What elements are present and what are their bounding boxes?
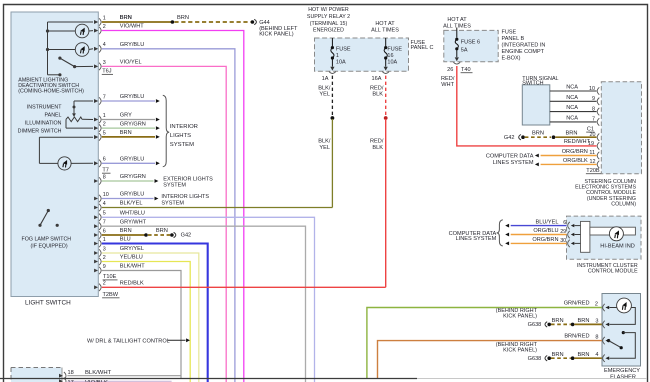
hi-beam indicator lamp (609, 227, 623, 241)
pin 18 terminal (59, 374, 63, 378)
svg-text:BRN: BRN (120, 15, 132, 21)
fog lamp switch contact left (38, 224, 41, 227)
svg-text:DIMMER SWITCH: DIMMER SWITCH (18, 128, 62, 134)
wire GRY/GRN pin2 to interior lights (102, 127, 155, 129)
svg-text:16A: 16A (372, 76, 382, 82)
svg-text:FOG LAMP SWITCH: FOG LAMP SWITCH (22, 236, 72, 242)
svg-text:COMPUTER DATA: COMPUTER DATA (486, 154, 534, 160)
brace computer data lines (cluster) (497, 220, 503, 246)
svg-text:HI-BEAM IND: HI-BEAM IND (600, 244, 635, 250)
ground node dot (521, 135, 525, 139)
wire NCA to steering module pin 10 (550, 90, 597, 92)
svg-text:7: 7 (103, 94, 106, 100)
svg-text:PANEL B: PANEL B (502, 36, 525, 42)
wire lamp to pin 6 (71, 162, 93, 164)
pin 4 GRY/BLU terminal (94, 47, 98, 51)
svg-text:BRN: BRN (577, 352, 589, 358)
svg-text:10A: 10A (336, 60, 346, 66)
wire RED/BLK pin2 to fuse 16 (102, 286, 386, 288)
wire ORG/BLU to cluster pin 29 (511, 234, 567, 236)
dashed BRN from G638 (pin 3) (551, 323, 571, 325)
arrow w/ drl callout (168, 339, 186, 341)
svg-text:SYSTEM: SYSTEM (163, 182, 186, 188)
flasher internal: lamp loop to pin3 (609, 308, 635, 325)
svg-text:FLASHER: FLASHER (610, 374, 636, 380)
svg-text:26: 26 (447, 67, 453, 73)
svg-text:LINES SYSTEM: LINES SYSTEM (493, 160, 534, 166)
pin 2 RED/BLK terminal (94, 285, 98, 289)
svg-text:INTERIOR: INTERIOR (170, 124, 198, 130)
svg-text:5A: 5A (461, 47, 468, 53)
svg-text:EMERGENCY: EMERGENCY (604, 368, 640, 374)
svg-text:NCA: NCA (566, 85, 578, 91)
svg-text:T10E: T10E (103, 274, 117, 280)
svg-text:SWITCH: SWITCH (522, 80, 543, 86)
fog lamp switch blade (40, 211, 48, 226)
svg-text:FUSE: FUSE (336, 47, 351, 53)
wire BLU pin1 (102, 244, 208, 382)
svg-text:ILLUMINATION: ILLUMINATION (25, 120, 62, 126)
svg-text:2: 2 (103, 255, 106, 261)
svg-text:5: 5 (103, 211, 106, 217)
svg-text:KICK PANEL): KICK PANEL) (503, 314, 537, 320)
svg-text:9: 9 (103, 264, 106, 270)
svg-text:GRY/BLU: GRY/BLU (120, 94, 144, 100)
flasher switch blade (609, 341, 622, 348)
svg-text:KICK PANEL): KICK PANEL) (503, 347, 537, 353)
pin 3 GRY/YEL terminal (94, 251, 98, 255)
wire switch to pin 3 (75, 65, 93, 67)
dimmer wiper riser (73, 101, 75, 107)
svg-text:G638: G638 (528, 322, 542, 328)
svg-text:GRY/GRN: GRY/GRN (120, 174, 146, 180)
dimmer wiper arrow (73, 107, 75, 114)
ground point G44 node (251, 20, 255, 24)
svg-text:SYSTEM: SYSTEM (170, 142, 194, 148)
svg-text:RED/: RED/ (370, 139, 384, 145)
wire GRY pin1 to interior lights (102, 119, 155, 121)
svg-text:G42: G42 (504, 135, 515, 141)
svg-text:BRN/RED: BRN/RED (564, 334, 589, 340)
svg-text:FUSE: FUSE (387, 47, 402, 53)
svg-text:10: 10 (103, 192, 109, 198)
svg-text:HOT W/ POWER: HOT W/ POWER (308, 7, 349, 13)
svg-text:12: 12 (590, 159, 596, 165)
splice node BRN (pin 3) (571, 323, 575, 327)
svg-text:11: 11 (589, 150, 595, 156)
cluster pin 30 bracket (568, 240, 570, 247)
cluster internal bus bar (590, 227, 636, 235)
svg-text:BRN: BRN (156, 228, 168, 234)
cluster pin 6 bracket (568, 222, 570, 229)
ground G44 chevron (254, 19, 256, 24)
pin 2 YEL/BLU terminal (94, 260, 98, 264)
pin 10 GRY/BLU terminal (94, 197, 98, 201)
wire BLK/WHT pin18 (67, 375, 181, 377)
dimmer: wire pin 7 (74, 100, 93, 102)
svg-text:10A: 10A (387, 60, 397, 66)
fog lamp switch contact upper (47, 209, 50, 212)
pin 8 GRY/GRN terminal (94, 179, 98, 183)
svg-text:HOT AT: HOT AT (375, 21, 395, 27)
pin 6 BRN terminal (94, 233, 98, 237)
wire VIO/WHT pin2 (102, 31, 244, 382)
svg-text:8: 8 (103, 174, 106, 180)
ground point G42 node (170, 233, 174, 237)
switch contact upper (58, 57, 61, 60)
svg-text:1: 1 (103, 113, 106, 119)
ground G42 chevron (174, 232, 176, 237)
svg-text:BRN: BRN (532, 131, 544, 137)
svg-text:FUSE 6: FUSE 6 (461, 40, 480, 46)
lamp (coming-home lamp 2) (75, 43, 89, 57)
svg-text:E-BOX): E-BOX) (502, 56, 521, 62)
svg-text:5: 5 (103, 130, 106, 136)
dimmer lamp loop left side (38, 137, 40, 163)
pin 1 BRN terminal (94, 20, 98, 24)
wire lamp2 to pin 4 (89, 48, 93, 51)
fuse 1 (331, 38, 333, 46)
svg-text:6: 6 (563, 220, 566, 226)
svg-text:GRY: GRY (120, 113, 132, 119)
svg-text:16: 16 (387, 53, 393, 59)
svg-text:10: 10 (589, 86, 595, 92)
svg-text:(IF EQUIPPED): (IF EQUIPPED) (31, 243, 68, 249)
svg-text:(INTEGRATED IN: (INTEGRATED IN (502, 43, 546, 49)
svg-text:WHT: WHT (441, 82, 454, 88)
svg-text:BLU/YEL: BLU/YEL (535, 219, 558, 225)
flasher internal: wire pin2 to lamp (609, 307, 617, 309)
pin 4 BLK/YEL terminal (94, 206, 98, 210)
svg-text:1: 1 (103, 15, 106, 21)
dashed BRN to ground G44 (174, 21, 250, 23)
pin 1 BLU terminal (94, 242, 98, 246)
wire GRY/BLU pin7 to interior lights (102, 100, 155, 102)
svg-text:BRN: BRN (566, 131, 578, 137)
cluster pin 30 internal stub (575, 242, 581, 244)
wire BLK/YEL pin4 to fuse 1 (102, 207, 333, 209)
dimmer lamp loop: wire pin 5 (39, 136, 93, 138)
svg-text:GRY/BLU: GRY/BLU (120, 157, 144, 163)
wire BLU/YEL to cluster pin 6 (511, 225, 567, 227)
svg-text:GRY/YEL: GRY/YEL (120, 246, 144, 252)
svg-text:2: 2 (103, 122, 106, 128)
instrument cluster control module body (567, 216, 642, 259)
svg-text:FUSE: FUSE (502, 30, 517, 36)
svg-text:(COMING-HOME-SWITCH): (COMING-HOME-SWITCH) (18, 89, 84, 95)
wire RED/BLK fuse16 to light switch (385, 119, 387, 287)
switch common stub (48, 74, 59, 76)
flasher indicator lamp (617, 298, 632, 313)
svg-text:3: 3 (103, 60, 106, 66)
svg-text:ORG/BRN: ORG/BRN (562, 149, 588, 155)
svg-text:ORG/BRN: ORG/BRN (532, 237, 558, 243)
flasher internal: contact loop to pin4 (609, 333, 635, 359)
svg-text:RED/: RED/ (441, 76, 455, 82)
wire NCA to steering module pin 9 (550, 100, 597, 102)
svg-text:BLU: BLU (120, 237, 131, 243)
svg-text:T2BW: T2BW (103, 292, 119, 298)
cluster pin 6 internal stub (575, 225, 581, 227)
svg-text:LIGHTS: LIGHTS (170, 133, 191, 139)
svg-text:BLK: BLK (372, 92, 383, 98)
svg-text:(TERMINAL 15): (TERMINAL 15) (310, 21, 348, 27)
svg-text:YEL/BLU: YEL/BLU (120, 255, 143, 261)
svg-text:29: 29 (560, 229, 566, 235)
svg-text:1: 1 (336, 53, 339, 59)
svg-text:YEL: YEL (319, 145, 330, 151)
svg-text:BLK/: BLK/ (318, 139, 331, 145)
splice node BRN (pin 4) (571, 356, 575, 360)
svg-text:GRY/BLU: GRY/BLU (120, 42, 144, 48)
svg-text:4: 4 (595, 352, 598, 358)
wire YEL/BLU pin2 (102, 262, 190, 382)
svg-text:T7: T7 (102, 168, 109, 174)
splice node fuse1 drop (331, 116, 335, 120)
svg-text:VIO/WHT: VIO/WHT (120, 24, 145, 30)
svg-text:KICK PANEL): KICK PANEL) (259, 32, 294, 38)
svg-text:ENERGIZED: ENERGIZED (313, 28, 344, 34)
wire BRN/RED to flasher pin 8 (378, 341, 602, 379)
section divider line (0, 378, 417, 380)
wire NCA to steering module pin 8 (550, 111, 597, 113)
steering module pin brackets (597, 87, 599, 94)
svg-text:GRY/BLU: GRY/BLU (120, 192, 144, 198)
cluster pin 29 internal stub (575, 234, 581, 236)
svg-text:6: 6 (103, 157, 106, 163)
svg-text:8: 8 (595, 334, 598, 340)
svg-text:HOT AT: HOT AT (447, 17, 467, 23)
svg-text:NCA: NCA (566, 116, 578, 122)
svg-text:W/ DRL & TAILLIGHT CONTROL: W/ DRL & TAILLIGHT CONTROL (87, 338, 170, 344)
dimmer illumination lamp (58, 157, 71, 170)
svg-text:BRN: BRN (552, 352, 564, 358)
svg-text:NCA: NCA (566, 95, 578, 101)
wire GRN/RED to flasher pin 2 (367, 308, 602, 379)
wire BRN pin1 to splice (102, 21, 173, 23)
next-section connector body (cut off) (11, 368, 62, 382)
svg-text:INSTRUMENT: INSTRUMENT (27, 104, 62, 110)
dashed BRN to ground G42 (148, 234, 170, 236)
svg-text:GRN/RED: GRN/RED (564, 301, 590, 307)
wire RED/WHT fuse6 to steering module pin19 (457, 66, 597, 146)
wire GRY/YEL pin3 (102, 253, 199, 382)
steering column electronic systems control module body (601, 82, 641, 174)
emergency flasher body (602, 294, 641, 367)
svg-text:SUPPLY RELAY 2: SUPPLY RELAY 2 (307, 14, 350, 20)
pin 7 GRY/WHT terminal (94, 224, 98, 228)
wire to lamp 1 (48, 30, 76, 32)
svg-text:8: 8 (592, 106, 595, 112)
wire BRN pin6 to splice (102, 234, 146, 236)
svg-text:3: 3 (595, 318, 598, 324)
svg-text:GRY/WHT: GRY/WHT (120, 219, 147, 225)
svg-text:CONTROL MODULE: CONTROL MODULE (588, 269, 638, 275)
wire to lamp 2 (48, 49, 76, 51)
turn signal switch body (522, 85, 550, 125)
light switch connector body (11, 12, 98, 297)
svg-text:RED/BLK: RED/BLK (120, 281, 144, 287)
wire to dimmer lamp (39, 162, 57, 164)
ground G42 chevron (right) (519, 135, 521, 140)
fog lamp switch contact right (56, 224, 59, 227)
svg-text:G638: G638 (528, 356, 542, 362)
svg-text:BLK: BLK (372, 145, 383, 151)
pin 17 terminal (cut) (59, 379, 63, 382)
svg-text:20: 20 (590, 132, 596, 138)
wire WHT/BLU pin5 (102, 217, 315, 382)
wire GRY/BLU pin10 to interior lights (102, 198, 154, 200)
pin 3 VIO/YEL terminal (94, 65, 98, 69)
wire ORG/BLK computer data to pin 12 (541, 163, 597, 165)
cluster internal connector bar (581, 221, 590, 252)
dashed BRN from G638 (pin 4) (551, 357, 571, 359)
svg-text:7: 7 (103, 220, 106, 226)
svg-text:SYSTEM: SYSTEM (161, 201, 184, 207)
svg-text:T40: T40 (461, 67, 471, 73)
flasher switch upper contact (622, 331, 625, 334)
switch contact node (73, 65, 76, 68)
wire resistor to pin 1 (82, 118, 93, 120)
svg-text:T6J: T6J (102, 69, 112, 75)
wire BRN to steering module pin 20 (555, 136, 596, 138)
pin 9 BLK/WHT terminal (94, 269, 98, 273)
svg-text:2: 2 (103, 281, 106, 287)
svg-text:ENGINE COMPT: ENGINE COMPT (502, 49, 545, 55)
svg-text:BRN: BRN (120, 228, 132, 234)
pin 6 GRY/BLU terminal (94, 161, 98, 165)
pin 1 GRY terminal (94, 118, 98, 122)
wire ORG/BRN to cluster pin 30 (511, 242, 567, 244)
svg-text:6: 6 (103, 228, 106, 234)
potentiometer resistor (66, 117, 82, 122)
wire BRN pin5 to interior lights (102, 136, 155, 138)
pin 7 GRY/BLU terminal (94, 99, 98, 103)
pin 5 WHT/BLU terminal (94, 215, 98, 219)
svg-text:2: 2 (103, 24, 106, 30)
svg-text:4: 4 (103, 201, 106, 207)
svg-text:ORG/BLU: ORG/BLU (533, 228, 558, 234)
svg-text:BLK/YEL: BLK/YEL (120, 201, 143, 207)
wire to pin 1 (48, 21, 94, 23)
dashed BRN from G42 (525, 136, 551, 138)
svg-text:BRN: BRN (177, 15, 189, 21)
dashed BLK/YEL fuse1 drop (331, 76, 333, 117)
dashed RED/BLK fuse16 drop (385, 76, 387, 117)
wire GRY/GRN pin8 to exterior lights (102, 180, 154, 182)
svg-text:BRN: BRN (120, 130, 132, 136)
lamp (coming-home lamp 1) (75, 24, 89, 38)
wire VIO (cut row) (67, 380, 171, 382)
svg-text:9: 9 (592, 96, 595, 102)
wire GRY/BLU pin6 to interior lights (102, 162, 155, 164)
svg-text:YEL: YEL (319, 92, 330, 98)
svg-text:NCA: NCA (566, 105, 578, 111)
svg-text:BRN: BRN (577, 318, 589, 324)
pin 2 VIO/WHT terminal (94, 29, 98, 33)
wire VIO/YEL pin3 (102, 66, 226, 382)
splice node on BRN pin6 (144, 233, 148, 237)
svg-text:WHT/BLU: WHT/BLU (120, 211, 145, 217)
switch blade (60, 58, 75, 67)
flasher pin brackets (603, 304, 605, 311)
wire ORG/BRN computer data to pin 11 (541, 155, 597, 157)
wire resistor left leg to pin 2 (65, 119, 67, 128)
svg-text:ALL TIMES: ALL TIMES (371, 28, 399, 34)
wire GRY/BLU pin4 (102, 49, 235, 382)
svg-text:PANEL: PANEL (45, 112, 62, 118)
svg-text:7: 7 (592, 117, 595, 123)
splice node BRN pin20 (552, 135, 556, 139)
svg-text:COLUMN): COLUMN) (611, 202, 636, 208)
svg-text:2: 2 (595, 301, 598, 307)
svg-text:3: 3 (103, 246, 106, 252)
ambient lighting deactivation switch: bus wire (47, 22, 49, 75)
svg-text:30: 30 (560, 238, 566, 244)
fuse 16 (385, 38, 387, 46)
svg-text:BRN: BRN (552, 318, 564, 324)
svg-text:1A: 1A (322, 76, 329, 82)
pin 5 BRN terminal (94, 135, 98, 139)
svg-text:BLK/WHT: BLK/WHT (120, 264, 145, 270)
svg-text:19: 19 (588, 141, 594, 147)
wire lamp1 to pin 2 (89, 30, 93, 32)
wire BRN to flasher pin 4 (574, 357, 601, 359)
node: lamp1 tap (46, 29, 49, 32)
wire BRN to flasher pin 3 (574, 323, 601, 325)
svg-text:GRY/GRN: GRY/GRN (120, 121, 146, 127)
svg-text:RED/WHT: RED/WHT (564, 139, 591, 145)
flasher internal: pin8 contact (607, 340, 609, 342)
svg-text:ORG/BLK: ORG/BLK (563, 158, 588, 164)
svg-text:T20B: T20B (586, 168, 600, 174)
cluster pin 29 bracket (568, 231, 570, 238)
brace interior lights group (163, 95, 169, 167)
svg-text:INTERIOR LIGHTS: INTERIOR LIGHTS (161, 194, 209, 200)
splice node fuse16 drop (384, 116, 388, 120)
splice node on BRN (171, 20, 175, 24)
fuse panel B body (444, 30, 498, 61)
svg-text:PANEL C: PANEL C (411, 45, 434, 51)
fuse 6 (456, 28, 458, 38)
svg-text:G42: G42 (181, 233, 192, 239)
fuse panel C body (315, 38, 409, 71)
svg-text:VIO/YEL: VIO/YEL (120, 60, 142, 66)
svg-text:LIGHT SWITCH: LIGHT SWITCH (25, 299, 71, 306)
svg-text:LINES SYSTEM: LINES SYSTEM (456, 236, 497, 242)
wire BLK/WHT pin9 to pin18 (102, 271, 181, 379)
wire NCA to steering module pin 7 (550, 121, 597, 123)
svg-text:1: 1 (103, 237, 106, 243)
svg-text:4: 4 (103, 42, 106, 48)
wire GRY/WHT pin7 (102, 226, 306, 382)
pin 2 GRY/GRN terminal (94, 126, 98, 130)
node: lamp2 tap (46, 48, 49, 51)
wire BLK/YEL fuse1 to light switch (331, 119, 333, 208)
